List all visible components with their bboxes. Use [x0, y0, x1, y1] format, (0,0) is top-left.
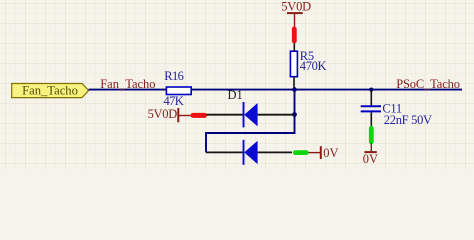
junction node C11/main wire: [369, 88, 373, 92]
resistor R16: [164, 69, 192, 108]
svg-text:0V: 0V: [363, 152, 378, 166]
svg-text:5V0D: 5V0D: [148, 107, 178, 121]
svg-text:D1: D1: [228, 88, 243, 102]
wire 0V thick green vertical: [369, 128, 374, 142]
pin C11 bottom: [370, 112, 372, 126]
power port 0V (right of lower diode): [309, 146, 339, 160]
wire Z-shaped to lower diode: [206, 115, 295, 153]
port Fan_Tacho: [12, 83, 89, 97]
junction node diode row: [292, 112, 297, 117]
resistor R5: [290, 49, 326, 77]
svg-text:47K: 47K: [164, 94, 184, 108]
svg-text:Fan_Tacho: Fan_Tacho: [22, 83, 78, 97]
power port 0V (below C11): [363, 143, 378, 166]
capacitor C11: [361, 101, 432, 127]
wire 5V0D thick red: [292, 29, 297, 41]
sheet background: [0, 0, 474, 169]
power port 5V0D (left, horizontal): [148, 107, 191, 122]
pin R5 bottom: [293, 77, 295, 90]
diode D1 lower (clamp to 0V): [206, 140, 292, 165]
svg-text:0V: 0V: [323, 146, 338, 160]
pin R5 top: [293, 43, 295, 51]
wire node down to diode row: [294, 90, 296, 115]
wire main horizontal net: [89, 89, 462, 91]
power port 5V0D (top): [281, 0, 311, 28]
svg-text:470K: 470K: [300, 59, 327, 73]
junction node R5/main wire: [292, 87, 297, 92]
diode D1 upper (clamp to 5V0D): [207, 102, 295, 127]
svg-text:PSoC_Tacho: PSoC_Tacho: [396, 77, 460, 91]
pin C11 top: [370, 90, 372, 106]
wire 0V thick green horizontal: [295, 150, 306, 155]
svg-text:22nF 50V: 22nF 50V: [384, 113, 432, 127]
svg-text:Fan_Tacho: Fan_Tacho: [100, 77, 155, 91]
wire 5V0D thick red horizontal: [193, 113, 205, 118]
svg-text:5V0D: 5V0D: [281, 0, 311, 13]
svg-text:R16: R16: [164, 69, 183, 83]
